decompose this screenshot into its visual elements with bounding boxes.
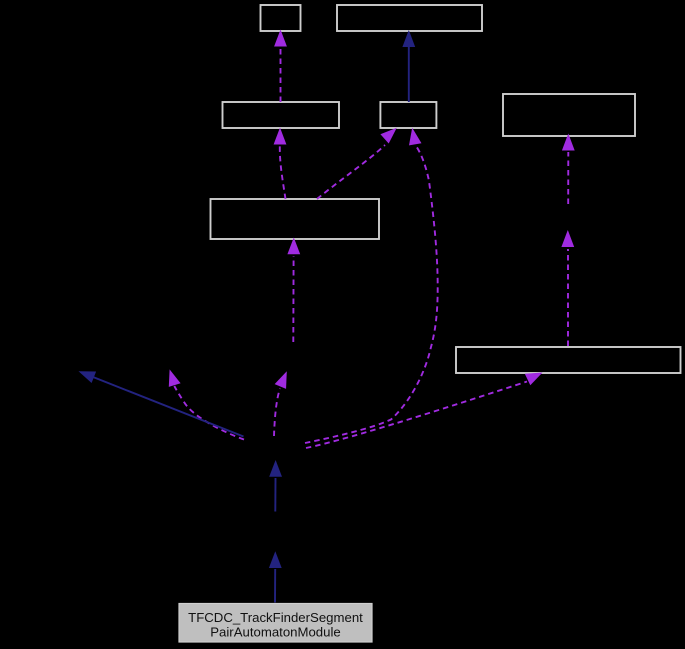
- edge hub to G (dashed long diagonal): [306, 373, 543, 449]
- svg-text:PairAutomatonModule: PairAutomatonModule: [210, 624, 340, 639]
- edge G to hidden node (dashed vertical lower): [561, 230, 574, 346]
- node C (second row left box): [223, 102, 340, 128]
- node F (third row two-line box): [211, 199, 380, 239]
- edge hidden node to E (dashed vertical upper): [562, 134, 575, 205]
- edge H to hub (solid blue vertical): [269, 460, 282, 512]
- svg-text:TFCDC_TrackFinderSegment: TFCDC_TrackFinderSegment: [188, 610, 363, 625]
- node E (right two-line box): [503, 94, 635, 136]
- edge hub to left hidden node (dashed curve left): [169, 369, 244, 439]
- edge hub to far left (solid blue diagonal): [79, 371, 244, 436]
- edge C to A (dashed): [274, 30, 287, 103]
- node B (top wide box): [337, 5, 482, 31]
- edge D to B (solid blue): [402, 30, 415, 102]
- edge F to C (dashed): [274, 128, 287, 200]
- edge hub to D (long dashed curve on right): [305, 128, 438, 443]
- edge main node to H (solid blue vertical): [269, 551, 282, 602]
- edge hub to hidden node (dashed, slight bend): [274, 371, 287, 436]
- edge hidden node to F (dashed vertical): [287, 238, 300, 343]
- node D (second row middle box): [380, 102, 436, 128]
- node A (top-left small box): [261, 5, 301, 31]
- edge F to D (dashed diagonal): [317, 128, 397, 199]
- node G (right lower wide box): [456, 347, 681, 373]
- main node TFCDC_TrackFinderSegmentPairAutomatonModule (gray filled): [179, 604, 372, 643]
